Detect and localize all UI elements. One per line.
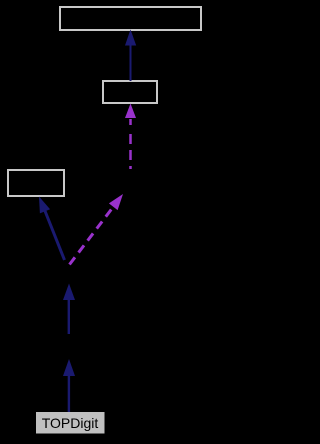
svg-text:TOPDigit: TOPDigit [42,415,99,431]
node box2 (second class box) [103,81,157,103]
inheritance arrow box2->box1 (solid navy, vertical) [125,30,136,82]
node box3 (left class box) [8,170,64,196]
inheritance arrow diagonal (solid navy into box3) [39,197,65,261]
inheritance arrow (solid navy, vertical, middle segment) [63,284,75,335]
node box1 (top class box, empty/dark label) [60,7,201,30]
usage arrow (dashed purple, vertical into box2) [125,104,136,170]
inheritance arrow TOPDigit->up (solid navy, vertical, bottom segment) [63,359,75,412]
usage arrow diagonal (dashed purple, up-right) [70,194,124,265]
node TOPDigit (main node, gray filled) [36,412,105,434]
